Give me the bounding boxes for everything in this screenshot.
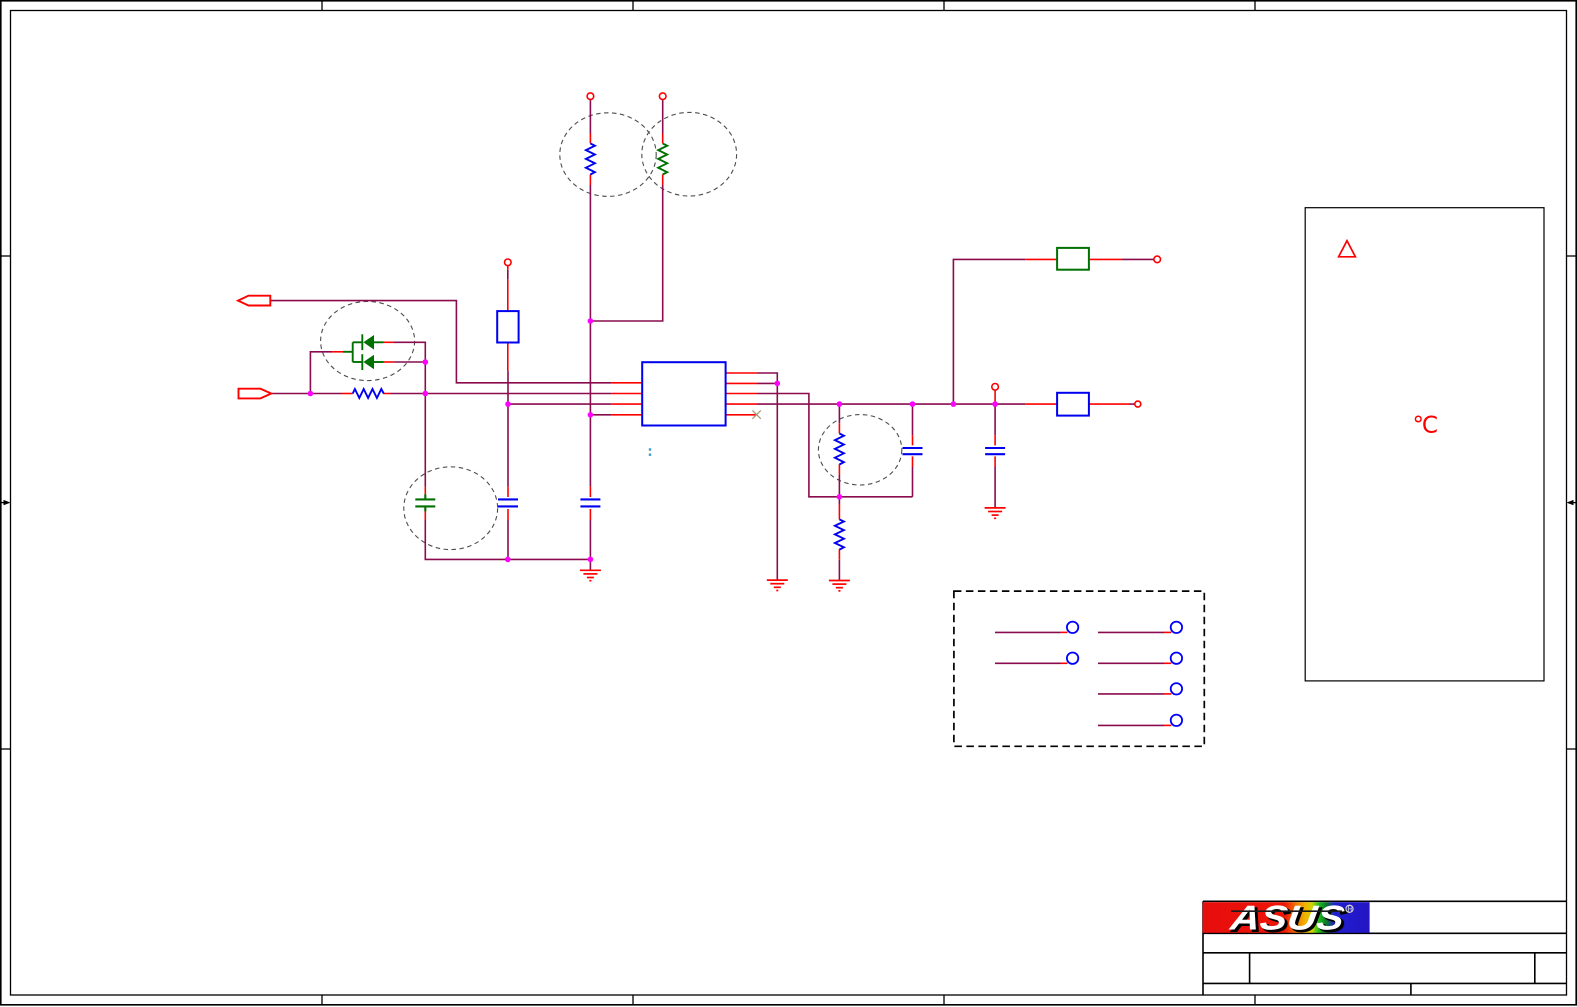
svg-text:℃: ℃: [1413, 412, 1439, 438]
svg-text:ASUS: ASUS: [1227, 900, 1346, 938]
svg-text:R: R: [1347, 905, 1353, 914]
